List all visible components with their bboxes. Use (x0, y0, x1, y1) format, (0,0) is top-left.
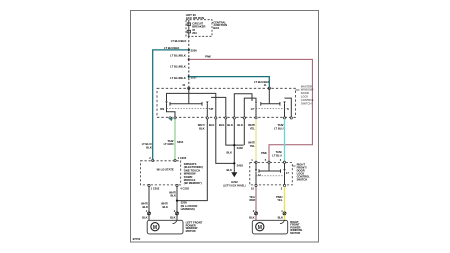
node S403 (233, 162, 235, 164)
svg-text:BLK: BLK (170, 194, 176, 198)
svg-text:BLK: BLK (146, 145, 152, 149)
svg-text:BLK: BLK (199, 126, 205, 130)
node S206 (188, 49, 190, 51)
svg-text:4 C202: 4 C202 (180, 186, 189, 190)
svg-text:DN: DN (160, 107, 164, 111)
label MASTER WINDOW/DOOR LOCK CONTROL SWITCH (296, 84, 315, 105)
svg-text:S207: S207 (191, 75, 198, 79)
wire TAN/LT GRN (green) master to one-touch module pin 1 (164, 119, 184, 160)
svg-text:(W/ MEMORY): (W/ MEMORY) (184, 181, 202, 185)
svg-text:1 C202: 1 C202 (151, 186, 160, 190)
wire PNK to right edge and down into right switch pin 5 (189, 59, 313, 161)
ground G202 (223, 172, 246, 187)
circuit breaker CB#5 in Central Junction Box (186, 20, 212, 37)
master switch right (passenger) rocker (244, 88, 291, 117)
svg-text:(LEFT KICK PANEL): (LEFT KICK PANEL) (223, 184, 246, 187)
label DRIVER'S ONE-TOUCH WINDOW MODULE (184, 162, 203, 185)
node S207 (188, 76, 190, 78)
svg-text:10: 10 (251, 186, 254, 190)
svg-text:DOOR: DOOR (301, 91, 309, 95)
svg-text:S304: S304 (177, 140, 184, 144)
svg-text:BLK: BLK (170, 216, 176, 220)
master window/door lock control switch box (157, 88, 296, 117)
label RIGHT FRONT WINDOW/DOOR LOCK CONTROL SWITCH (292, 162, 310, 181)
svg-text:M: M (258, 225, 262, 231)
svg-text:S402: S402 (237, 146, 244, 150)
svg-text:BLK: BLK (226, 151, 232, 155)
label LEFT FRONT POWER WINDOW MOTOR (186, 220, 203, 233)
svg-text:HARNESS): HARNESS) (181, 207, 195, 211)
svg-text:CONTROL: CONTROL (301, 98, 315, 102)
wire WHT/BLK module pin 4 to splice S205 and left motor (161, 187, 197, 221)
label CENTRAL JUNCTION BOX (212, 20, 227, 30)
node junction PNK (188, 58, 190, 60)
svg-text:PNK: PNK (261, 151, 267, 155)
wire stub to door lock circuit (left, with arrow) (169, 118, 173, 121)
svg-text:BLK: BLK (226, 168, 232, 172)
svg-text:14: 14 (251, 107, 254, 111)
svg-text:LT BLU: LT BLU (272, 153, 281, 157)
svg-text:LT BLU/BLK: LT BLU/BLK (164, 46, 180, 50)
right front window switch box (250, 158, 292, 190)
wire LT BLU/BLK (teal) to right down to master switch pin 11 (189, 77, 269, 88)
svg-text:LT BLU/BLK: LT BLU/BLK (254, 80, 270, 84)
wire PNK/YEL right switch to right motor (276, 187, 286, 221)
master switch left (driver) rocker (160, 88, 252, 117)
svg-text:YEL: YEL (277, 198, 283, 202)
svg-text:10: 10 (182, 83, 185, 87)
svg-text:BLK: BLK (142, 216, 148, 220)
wire WHT/YEL (yellow) master to right switch pin 1 (248, 119, 256, 162)
svg-text:LT BLU/BLK: LT BLU/BLK (170, 53, 186, 57)
svg-text:SWITCH: SWITCH (297, 177, 308, 181)
svg-text:LT BLU/BLK: LT BLU/BLK (170, 76, 186, 80)
one-touch down module box (141, 156, 190, 190)
svg-text:M: M (153, 225, 157, 231)
wire WHT/BLK module pin 1 to left motor (141, 187, 150, 221)
right front power window motor (252, 220, 287, 234)
svg-text:BLK: BLK (219, 123, 225, 127)
left front power window motor (147, 220, 183, 234)
svg-text:BLK: BLK (249, 216, 255, 220)
wire BLK ground network (209, 119, 244, 172)
wire YEL/RED right switch to right motor (249, 187, 258, 221)
master switch bottom pins (169, 117, 293, 119)
svg-text:BOX: BOX (213, 26, 219, 30)
svg-text:20A: 20A (192, 31, 197, 35)
svg-text:MASTER: MASTER (301, 84, 312, 88)
wire TAN/LT BLU (cyan) master to right switch pin 3 (272, 119, 284, 162)
svg-text:RED: RED (250, 198, 256, 202)
svg-text:BLK: BLK (227, 123, 233, 127)
svg-text:YEL: YEL (250, 144, 256, 148)
svg-text:1 C305: 1 C305 (178, 156, 187, 160)
wire WHT/BLK from master UP down and left to splice S205 (177, 119, 207, 201)
svg-text:BREAKER: BREAKER (192, 25, 205, 29)
svg-text:BLK: BLK (142, 205, 148, 209)
node S402 (233, 144, 235, 146)
svg-text:BLK: BLK (162, 205, 168, 209)
svg-text:MOTOR: MOTOR (290, 231, 300, 235)
border frame (decorative) (131, 11, 319, 243)
svg-text:YEL: YEL (250, 126, 256, 130)
svg-text:PNK: PNK (205, 55, 211, 59)
svg-text:W/ LO-STATE: W/ LO-STATE (157, 168, 174, 172)
node S205 (176, 200, 178, 202)
svg-text:14: 14 (258, 173, 261, 177)
svg-text:MOTOR: MOTOR (186, 229, 196, 233)
svg-text:S206: S206 (191, 49, 198, 53)
svg-text:LT BLU: LT BLU (274, 126, 283, 130)
svg-text:97F50: 97F50 (133, 237, 141, 241)
svg-text:BLK: BLK (209, 123, 215, 127)
power source label HOT IN ACC OR RUN (186, 13, 204, 20)
svg-text:LT BLU/BLK: LT BLU/BLK (170, 65, 186, 69)
wire main feed (dashed) from circuit breaker down to master switch (188, 36, 190, 87)
svg-text:S403: S403 (237, 163, 244, 167)
svg-text:LT BLU/BLK: LT BLU/BLK (171, 39, 187, 43)
svg-text:17: 17 (286, 171, 289, 175)
wire LT BLU/BLK to left (teal) down to one-touch module (153, 50, 189, 160)
svg-text:BLK: BLK (237, 123, 243, 127)
svg-text:LT GRN: LT GRN (164, 142, 174, 146)
svg-text:UP: UP (210, 107, 214, 111)
label RIGHT FRONT POWER WINDOW MOTOR (290, 220, 302, 235)
svg-text:WINDOW/: WINDOW/ (301, 88, 314, 92)
svg-text:LOCK: LOCK (301, 95, 309, 99)
svg-text:SWITCH: SWITCH (301, 101, 312, 105)
svg-text:BLK: BLK (278, 216, 284, 220)
